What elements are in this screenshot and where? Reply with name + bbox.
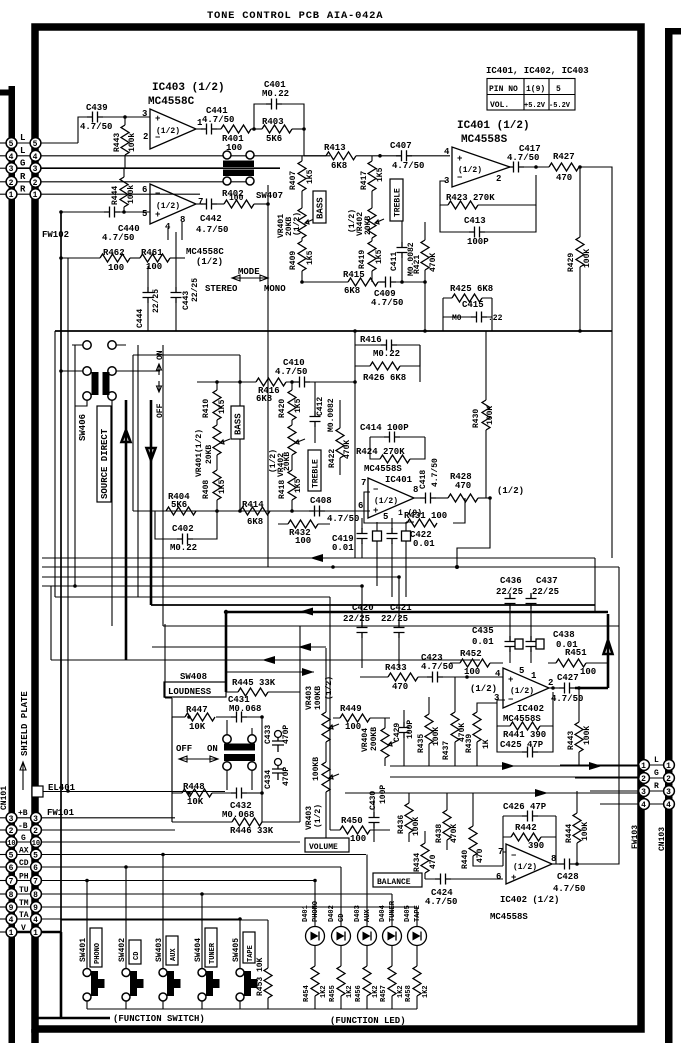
svg-text:2: 2 (143, 132, 148, 142)
svg-text:10K: 10K (189, 722, 206, 732)
potentiometer VR401 lower (213, 425, 221, 455)
svg-text:R461: R461 (141, 248, 163, 258)
BASS label box (313, 191, 326, 223)
resistor R428 470 (448, 494, 478, 502)
svg-text:(FUNCTION LED): (FUNCTION LED) (330, 1016, 406, 1026)
svg-text:C414 100P: C414 100P (360, 423, 409, 433)
svg-text:5: 5 (33, 140, 38, 149)
svg-text:6: 6 (9, 864, 14, 873)
resistor R437 470K vertical (451, 712, 459, 742)
svg-text:100: 100 (580, 667, 596, 677)
svg-text:+: + (373, 506, 378, 516)
capacitor C443 22/25 (171, 287, 182, 303)
svg-text:4.7/50: 4.7/50 (102, 233, 134, 243)
SW406 bar1 (92, 372, 99, 395)
svg-text:R440: R440 (461, 850, 470, 869)
svg-text:R420: R420 (278, 399, 287, 418)
svg-text:C407: C407 (390, 141, 412, 151)
svg-text:2: 2 (33, 827, 38, 836)
svg-text:R: R (20, 172, 26, 182)
resistor R408 1K5 vertical (213, 470, 221, 500)
svg-text:(1/2): (1/2) (314, 804, 323, 828)
svg-text:470K: 470K (343, 440, 352, 459)
svg-text:TUNER: TUNER (389, 900, 397, 922)
loudness box left frame (165, 624, 172, 822)
SW407 bar1 (223, 161, 254, 168)
resistor R458 1K2 (405, 966, 430, 1009)
potentiometer VR401 upper (298, 208, 306, 238)
wire tone bottom row (302, 281, 348, 283)
svg-text:100k: 100k (128, 133, 137, 152)
svg-text:C444: C444 (136, 309, 145, 328)
resistor R435 100K vertical (425, 714, 433, 744)
svg-text:TA: TA (19, 911, 29, 920)
svg-text:SW407: SW407 (256, 191, 283, 201)
svg-text:+B: +B (18, 809, 28, 818)
svg-text:C434: C434 (264, 770, 273, 789)
svg-text:R413: R413 (324, 143, 346, 153)
LED D401 PHONO (302, 879, 325, 966)
wire R427 to right vertical (579, 167, 612, 331)
svg-text:100K: 100K (583, 726, 592, 745)
potentiometer VR402 lower (288, 425, 296, 455)
svg-text:100: 100 (108, 263, 124, 273)
svg-text:C412: C412 (316, 397, 325, 416)
resistor R402 100 (217, 203, 224, 205)
bold output vertical with arrow (604, 614, 613, 688)
svg-text:0.01: 0.01 (413, 539, 435, 549)
svg-text:(1/2): (1/2) (470, 684, 497, 694)
svg-text:R452: R452 (460, 649, 482, 659)
svg-text:IC401 (1/2): IC401 (1/2) (457, 120, 530, 132)
svg-text:C428: C428 (557, 872, 579, 882)
svg-text:SOURCE DIRECT: SOURCE DIRECT (100, 428, 110, 499)
SOURCE DIRECT label box (97, 406, 111, 502)
svg-text:10K: 10K (187, 797, 204, 807)
junction dots left buses (73, 584, 77, 588)
wire R402 to SW407 (254, 203, 268, 205)
svg-text:9: 9 (9, 904, 14, 913)
switch SW403 AUX (155, 853, 181, 1009)
svg-text:R: R (20, 185, 26, 195)
svg-text:L: L (654, 756, 659, 765)
svg-text:100: 100 (295, 536, 311, 546)
svg-text:1K5: 1K5 (218, 479, 227, 494)
svg-text:MC4558S: MC4558S (490, 912, 528, 922)
svg-text:SHIELD PLATE: SHIELD PLATE (20, 691, 30, 756)
capacitor C409 (380, 277, 396, 288)
resistor R407 1K5 vertical (298, 161, 306, 191)
svg-text:7: 7 (9, 878, 14, 887)
wire TU row (16, 893, 392, 895)
right adjacent sheet bar (665, 28, 673, 1043)
svg-text:+5.2V: +5.2V (524, 102, 546, 110)
svg-text:0331: 0331 (666, 1024, 675, 1043)
svg-text:R446 33K: R446 33K (230, 826, 274, 836)
svg-text:IC403 (1/2): IC403 (1/2) (152, 82, 225, 94)
connector pins col2 right (664, 760, 675, 810)
svg-text:(1/2): (1/2) (156, 202, 180, 211)
svg-text:TONE CONTROL PCB AIA-042A: TONE CONTROL PCB AIA-042A (207, 10, 383, 22)
svg-text:22/25: 22/25 (191, 278, 200, 302)
capacitor C408 (309, 506, 325, 517)
wire G row (16, 841, 300, 843)
svg-text:TM: TM (19, 899, 29, 908)
wire C417 to R427 (524, 166, 549, 168)
svg-text:3: 3 (641, 788, 646, 797)
svg-text:TU: TU (19, 886, 29, 895)
svg-text:3: 3 (33, 165, 38, 174)
connector pins col1 bottom (6, 812, 17, 938)
svg-text:-B: -B (18, 822, 28, 831)
wire +B row (16, 817, 175, 819)
potentiometer VR403 lower half (322, 762, 330, 792)
caps row C419 C422 (357, 528, 368, 544)
svg-text:R457: R457 (380, 985, 388, 1002)
capacitor C417 (508, 162, 524, 173)
svg-text:20KB: 20KB (364, 216, 373, 235)
LED D402 CD (328, 867, 351, 966)
svg-text:470: 470 (455, 481, 471, 491)
bus arrowheads (310, 554, 323, 562)
svg-text:R423 270K: R423 270K (446, 193, 495, 203)
svg-text:4.7/50: 4.7/50 (392, 161, 424, 171)
connector pins col2 bottom (31, 812, 42, 938)
svg-text:OFF: OFF (176, 744, 192, 754)
svg-text:390: 390 (528, 841, 544, 851)
svg-text:C427: C427 (557, 673, 579, 683)
resistor R418 1K5 vertical (288, 470, 296, 500)
svg-text:MC4558S: MC4558S (364, 464, 402, 474)
svg-text:AX: AX (19, 847, 29, 856)
svg-text:(FUNCTION SWITCH): (FUNCTION SWITCH) (113, 1014, 205, 1024)
svg-text:M0.22: M0.22 (170, 543, 197, 553)
svg-text:R426 6K8: R426 6K8 (363, 373, 406, 383)
svg-text:C418: C418 (419, 470, 428, 489)
wire R413 to C407 (356, 155, 396, 157)
svg-text:G: G (654, 769, 659, 778)
svg-text:2: 2 (9, 827, 14, 836)
svg-text:R444: R444 (111, 186, 120, 205)
resistor R444 100k (120, 177, 128, 207)
wire bottom row y511 (155, 510, 370, 512)
svg-text:VR403: VR403 (305, 686, 314, 710)
svg-text:C439: C439 (86, 103, 108, 113)
svg-text:C429: C429 (393, 723, 402, 742)
svg-text:1K2: 1K2 (320, 985, 328, 998)
svg-text:−: − (511, 851, 516, 861)
svg-text:470P: 470P (282, 767, 291, 786)
svg-text:R407: R407 (289, 171, 298, 190)
LED D404 TUNER (379, 894, 402, 966)
svg-text:1K2: 1K2 (397, 985, 405, 998)
svg-text:R409: R409 (289, 251, 298, 270)
svg-text:C443: C443 (182, 291, 191, 310)
capacitor C434 470P (275, 759, 282, 766)
svg-text:D402: D402 (328, 905, 336, 922)
svg-text:CD: CD (133, 952, 141, 960)
resistor R414 6K8 (240, 507, 270, 515)
resistor R443 100K vertical (575, 722, 583, 752)
capacitor C442 (201, 199, 217, 210)
svg-text:VR401(1/2): VR401(1/2) (195, 429, 204, 477)
svg-text:BASS: BASS (234, 413, 244, 435)
resistor R416b 6K8 (256, 378, 286, 386)
left sheet stub wire (0, 90, 12, 96)
svg-text:100P: 100P (467, 237, 489, 247)
svg-text:20KB: 20KB (205, 445, 214, 464)
svg-text:2: 2 (666, 775, 671, 784)
wire out G row (575, 777, 666, 779)
svg-text:4: 4 (641, 801, 646, 810)
wires from bus down to C420 C421 (360, 584, 364, 588)
resistor R422 470K vertical (336, 428, 344, 458)
svg-text:1: 1 (666, 762, 671, 771)
wire row5 L (16, 142, 78, 144)
svg-text:10: 10 (32, 840, 40, 848)
svg-text:20KB: 20KB (283, 452, 292, 471)
svg-text:PHONO: PHONO (312, 901, 320, 922)
bold bus y612 (226, 611, 608, 614)
svg-text:M0: M0 (452, 314, 462, 323)
svg-text:4.7/50: 4.7/50 (196, 225, 228, 235)
svg-text:R453 10K: R453 10K (256, 957, 265, 996)
svg-text:R443: R443 (567, 731, 576, 750)
resistor R420 1K5 vertical (288, 390, 296, 420)
svg-text:R439: R439 (465, 734, 474, 753)
svg-text:R417: R417 (360, 171, 369, 190)
capacitor C411 M0.0082 vertical (397, 242, 408, 258)
LED D405 TAPE (404, 905, 427, 966)
svg-text:10: 10 (7, 840, 15, 848)
svg-text:R430: R430 (472, 409, 481, 428)
resistor R415 6K8 (348, 278, 378, 286)
svg-text:2: 2 (641, 775, 646, 784)
svg-text:VOLUME: VOLUME (309, 843, 338, 852)
svg-text:CN103: CN103 (658, 827, 667, 851)
wires C420 C421 (362, 577, 399, 668)
svg-text:TREBLE: TREBLE (312, 459, 321, 488)
svg-text:6: 6 (496, 872, 501, 882)
svg-text:R421: R421 (413, 255, 422, 274)
svg-text:R437: R437 (442, 741, 451, 760)
svg-text:-5.2V: -5.2V (549, 102, 571, 110)
svg-text:−: − (508, 695, 513, 705)
svg-text:D405: D405 (404, 905, 412, 922)
capacitor C428 (559, 859, 575, 870)
svg-text:1K2: 1K2 (422, 985, 430, 998)
svg-text:470: 470 (556, 173, 572, 183)
svg-text:C433: C433 (264, 725, 273, 744)
svg-text:ON: ON (156, 350, 165, 360)
svg-text:8: 8 (551, 854, 556, 864)
svg-text:ON: ON (207, 744, 218, 754)
svg-text:D404: D404 (379, 905, 387, 922)
svg-text:BASS: BASS (316, 197, 326, 219)
capacitor C424 (435, 874, 451, 885)
border bottom-left post extension (31, 1029, 39, 1043)
wire out 4 row (600, 803, 666, 805)
wires C444 C443 verticals (148, 222, 182, 331)
svg-text:(1/2): (1/2) (374, 497, 398, 506)
svg-text:470: 470 (476, 848, 485, 863)
svg-text:(1/2): (1/2) (156, 127, 180, 136)
svg-text:R441 390: R441 390 (503, 730, 546, 740)
bold signal arrow up (122, 400, 131, 470)
svg-text:1K5: 1K5 (294, 478, 303, 493)
svg-text:470P: 470P (282, 725, 291, 744)
svg-text:1K5: 1K5 (294, 398, 303, 413)
svg-text:TAPE: TAPE (247, 945, 255, 962)
svg-text:R419: R419 (358, 250, 367, 269)
wire EL401 (43, 791, 225, 793)
verticals between loudness and volume (299, 626, 301, 822)
resistor R457 1K2 (380, 966, 405, 1009)
BOTTOM LEFT CONNECTOR (0, 691, 417, 938)
svg-text:IC401: IC401 (385, 475, 413, 485)
capacitor C439 (87, 112, 103, 123)
svg-text:5: 5 (9, 140, 14, 149)
capacitor C429 100P vertical (399, 722, 410, 738)
svg-text:5: 5 (556, 85, 561, 94)
pair of contacts above SW406 (83, 341, 91, 349)
svg-text:4.7/50: 4.7/50 (421, 662, 453, 672)
svg-text:100: 100 (345, 722, 361, 732)
svg-text:C437: C437 (536, 576, 558, 586)
opamp out wire (552, 863, 559, 865)
svg-text:1: 1 (9, 191, 14, 200)
switch SW404 TUNER (194, 892, 220, 1009)
SW408 bar1 (224, 744, 255, 751)
horizontal bus bundle (42, 557, 595, 559)
svg-text:R450: R450 (341, 816, 363, 826)
resistor R413 6K8 (326, 152, 356, 160)
svg-text:D403: D403 (354, 905, 362, 922)
resistor R426 6K8 (355, 345, 420, 366)
svg-text:LOUDNESS: LOUDNESS (168, 687, 212, 697)
svg-text:4.7/50: 4.7/50 (202, 115, 234, 125)
svg-text:1(9): 1(9) (526, 85, 545, 94)
svg-text:200KB: 200KB (370, 727, 379, 751)
shield plate arrow (20, 762, 26, 790)
svg-text:3: 3 (142, 109, 147, 119)
capacitor C407 (396, 150, 412, 161)
svg-text:100KB: 100KB (314, 686, 323, 710)
svg-text:1K2: 1K2 (372, 985, 380, 998)
svg-text:+: + (508, 675, 513, 685)
LED D403 AUX (354, 855, 377, 967)
svg-text:6: 6 (33, 864, 38, 873)
svg-text:(1/2): (1/2) (497, 486, 524, 496)
svg-text:2: 2 (496, 174, 501, 184)
BASS label box lower (231, 406, 244, 439)
svg-text:8: 8 (9, 891, 14, 900)
capacitor C433 470P (275, 731, 282, 738)
resistor R432 100 (288, 520, 318, 528)
svg-text:R415: R415 (343, 270, 365, 280)
svg-text:CD: CD (338, 914, 346, 922)
wire bold bottom stub (35, 1017, 110, 1020)
wire node to R413 (304, 155, 326, 157)
EL401 ferrite bead (32, 786, 43, 797)
svg-text:C415: C415 (462, 300, 484, 310)
feedback C413 100P (440, 205, 536, 232)
svg-text:R462: R462 (103, 248, 125, 258)
svg-text:(1/2): (1/2) (196, 257, 223, 267)
main bus y331 (55, 330, 612, 332)
svg-text:R444: R444 (565, 824, 574, 843)
svg-text:0.01: 0.01 (332, 543, 354, 553)
svg-text:22/25: 22/25 (532, 587, 559, 597)
svg-text:+: + (457, 154, 462, 164)
op-amp IC401a (452, 147, 510, 187)
svg-text:(1/2): (1/2) (458, 166, 482, 175)
svg-text:4.7/50: 4.7/50 (553, 884, 585, 894)
svg-text:4.7/50: 4.7/50 (275, 367, 307, 377)
wire R401 to node (251, 128, 262, 130)
wire C409 to R421 bottom (396, 281, 425, 283)
VOLUME label box (305, 838, 349, 852)
svg-text:8: 8 (180, 215, 185, 225)
capacitor C440 (104, 207, 120, 218)
svg-text:5K6: 5K6 (266, 134, 282, 144)
BALANCE label box (373, 873, 422, 887)
resistor R455 1K2 (329, 966, 354, 1009)
svg-text:R434: R434 (413, 853, 422, 872)
svg-text:PHONO: PHONO (94, 943, 102, 964)
op-amp IC402b (506, 844, 552, 884)
svg-text:+: + (155, 210, 160, 220)
switch SW407 upper contacts (223, 151, 231, 159)
resistor R429 100K vertical (576, 237, 584, 267)
svg-text:100P: 100P (379, 785, 388, 804)
svg-text:3: 3 (9, 815, 14, 824)
svg-text:M0.068: M0.068 (229, 704, 261, 714)
svg-text:C402: C402 (172, 524, 194, 534)
bold loudness feed vertical (225, 612, 228, 692)
svg-text:R408: R408 (202, 480, 211, 499)
wires SW408 verticals (227, 720, 252, 790)
arrows off-on (179, 756, 218, 762)
left frame wire x55 (54, 331, 56, 597)
svg-text:.22: .22 (488, 314, 503, 323)
svg-text:2: 2 (9, 179, 14, 188)
switch SW408 contacts (223, 735, 231, 743)
resistor R417 1K5 vertical (368, 161, 376, 191)
svg-text:IC401, IC402, IC403: IC401, IC402, IC403 (486, 66, 589, 76)
svg-text:7: 7 (361, 478, 366, 488)
svg-text:100: 100 (350, 834, 366, 844)
svg-text:R451: R451 (565, 648, 587, 658)
capacitor C425 47P (497, 726, 553, 752)
svg-text:1K5: 1K5 (375, 249, 384, 264)
svg-text:4: 4 (9, 916, 14, 925)
svg-text:TREBLE: TREBLE (394, 188, 403, 217)
wire CD row (16, 866, 341, 868)
TREBLE label box lower (308, 450, 321, 491)
switch SW401 PHONO (79, 879, 105, 1009)
capacitor C441 (201, 124, 217, 135)
wire TA row (16, 918, 240, 920)
left adjacent sheet bar (9, 86, 16, 1043)
svg-text:1: 1 (33, 191, 38, 200)
junction dots on buses (224, 610, 228, 614)
svg-text:7: 7 (498, 847, 503, 857)
function switch bottom wire (87, 1008, 417, 1010)
svg-text:4.7/50: 4.7/50 (371, 298, 403, 308)
bold V wire down (60, 932, 63, 1019)
svg-text:−: − (373, 485, 378, 495)
